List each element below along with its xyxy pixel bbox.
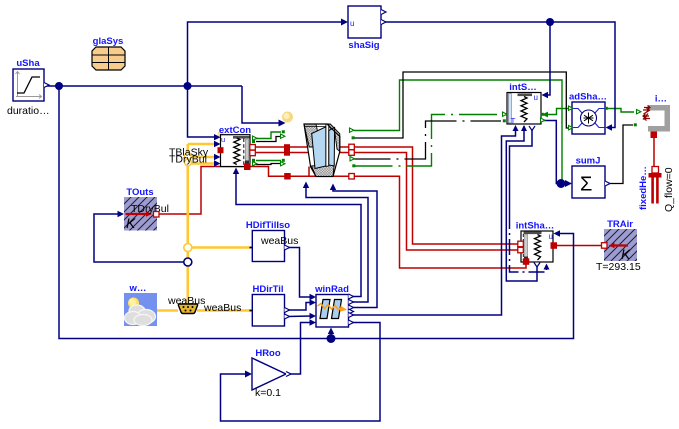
block adSha radiosity splitter	[569, 92, 607, 135]
svg-text:extCon: extCon	[219, 125, 251, 136]
svg-text:HDirTil: HDirTil	[253, 284, 284, 295]
svg-text:K: K	[621, 246, 631, 262]
wire window right lower to intSha port2	[354, 153, 518, 251]
connector weaBus icon	[167, 295, 241, 314]
dark red radiosity glyph at room block	[644, 106, 651, 121]
wire TOuts bus tap	[94, 214, 188, 262]
wires-green	[256, 80, 634, 182]
block sumJ radiosity sum	[572, 156, 605, 199]
wires-black	[256, 72, 633, 184]
block intSha interior shade convection 2	[516, 221, 555, 263]
wire HDirTil out2 to winRad	[287, 315, 312, 318]
wire up to shaSig input	[188, 22, 346, 86]
wire HRoo out up to winRad	[286, 323, 312, 375]
svg-text:u: u	[350, 19, 354, 28]
svg-text:intSha…: intSha…	[516, 221, 555, 232]
bus ticks at block ports	[250, 248, 256, 311]
svg-text:weaBus: weaBus	[260, 235, 298, 247]
wire winRad out2 to window bottom1	[306, 186, 368, 302]
svg-text:TDryBul: TDryBul	[169, 154, 207, 166]
svg-text:u: u	[534, 93, 538, 102]
block TOuts prescribed temperature	[124, 187, 169, 231]
wire winRad out to HRoo feedback loop	[221, 323, 381, 422]
block HDirTil	[252, 284, 284, 326]
wire sumJ out to room radiosity	[608, 125, 633, 184]
window icon 3D glazing	[304, 124, 340, 177]
wire intS port to intSha bottom a	[506, 126, 537, 281]
svg-text:uSha: uSha	[16, 58, 40, 69]
svg-text:HRoo: HRoo	[255, 348, 281, 359]
wire intS chevron to sumJ junction	[543, 121, 561, 184]
wires-red	[159, 137, 655, 268]
block HRoo gain	[252, 348, 286, 399]
svg-text:u: u	[221, 135, 225, 144]
block indoor radiosity gray bracket	[643, 94, 670, 139]
bus weaDat to connector	[157, 309, 178, 312]
wire intSha right to TRAir	[553, 245, 602, 247]
record glaSys	[92, 36, 125, 70]
wire HDifTilIso to winRad	[285, 248, 313, 298]
wires-navy	[45, 22, 615, 421]
bus tap circles	[184, 153, 192, 266]
wire branch to intS right arrow	[546, 109, 562, 115]
wire extCon to window bottom pair green	[256, 160, 281, 162]
wire uSha trunk down and across bottom to intSha.u	[59, 86, 574, 339]
wire uSha out to right	[45, 85, 242, 87]
block weaDat weather data	[124, 283, 157, 326]
svg-text:K: K	[126, 215, 136, 231]
wire window bottom port to intSha bottom	[355, 176, 527, 268]
block uSha ramp source	[7, 58, 50, 117]
wire extCon to window top pair green	[256, 132, 281, 139]
wire radiosity block to fixedHeatFlow	[653, 137, 655, 167]
svg-text:Q_flow=0: Q_flow=0	[663, 167, 675, 212]
svg-text:w…: w…	[129, 283, 147, 294]
svg-text:weaBus: weaBus	[167, 295, 205, 307]
bus vertical	[187, 144, 190, 303]
block winRad window radiation	[314, 284, 349, 327]
wire branch down to intS u	[545, 22, 550, 95]
wire winRad long out to intS bottom	[349, 130, 516, 315]
wire TOuts port to extCon bottom	[159, 167, 245, 215]
svg-text:weaBus: weaBus	[203, 302, 241, 314]
wire left red stubs into window icon	[285, 147, 314, 153]
svg-text:winRad: winRad	[314, 284, 349, 295]
bus branch TBlaSky to extCon	[188, 143, 216, 146]
wire window JOut to intS left dash-dot	[353, 121, 502, 159]
wire adSha out to room radiosity	[607, 109, 634, 113]
svg-text:T: T	[511, 117, 516, 126]
wire winRad out1 to extCon bottom	[236, 172, 361, 297]
wire branch up to winRad bottom	[330, 330, 332, 339]
wire window bottom left stub	[308, 167, 310, 177]
bus branch to extCon 2	[188, 156, 216, 159]
svg-text:k=0.1: k=0.1	[255, 387, 281, 399]
wire window JOut to adSha loop	[355, 72, 569, 138]
wire shaSig output across top	[381, 22, 615, 128]
green ports	[252, 106, 641, 167]
svg-text:TDryBul: TDryBul	[131, 203, 169, 215]
wire window right upper to intSha port1	[354, 147, 518, 244]
wire extCon through red	[222, 149, 250, 151]
bus branch to HDifTilIso	[188, 246, 250, 249]
wire winRad out3 to window bottom2	[333, 188, 377, 308]
wire extCon bottom port to window bottom port	[248, 167, 349, 177]
svg-text:i…: i…	[655, 94, 667, 105]
red port squares	[154, 144, 608, 265]
sun	[282, 112, 293, 123]
svg-text:TRAir: TRAir	[607, 219, 633, 230]
block TRAir prescribed temperature	[596, 219, 641, 273]
wire intS port to intSha bottom b	[510, 129, 533, 213]
wire branch to adSha left	[562, 108, 569, 110]
svg-text:glaSys: glaSys	[93, 36, 124, 47]
wire window to intS green dash-dot	[355, 115, 503, 167]
svg-text:TOuts: TOuts	[126, 187, 153, 198]
svg-text:duratio…: duratio…	[7, 105, 50, 117]
wires-bus-orange	[157, 144, 250, 311]
block shaSig	[348, 6, 381, 51]
svg-text:Σ: Σ	[580, 174, 592, 196]
wire down to extCon u input	[188, 86, 217, 137]
svg-text:T=293.15: T=293.15	[596, 261, 641, 273]
bus branch to extCon 3	[188, 162, 216, 165]
svg-text:shaSig: shaSig	[348, 40, 379, 51]
block intS interior shade convection	[507, 82, 541, 126]
svg-text:intS…: intS…	[509, 82, 536, 93]
wire HDirTil out1 to winRad	[285, 303, 313, 311]
svg-text:HDifTilIso: HDifTilIso	[246, 220, 290, 231]
wire to window uSha input	[242, 86, 281, 123]
svg-text:u: u	[549, 232, 553, 241]
navy input arrows	[118, 19, 613, 378]
wire extCon right to window left upper	[254, 146, 284, 148]
wire intS-intSha dash-dot segment	[510, 213, 547, 272]
svg-text:fixedHe…: fixedHe…	[638, 166, 649, 210]
block fixedHe fixed heat flow	[638, 166, 675, 212]
wire window JIn long loop to sumJ	[354, 80, 562, 182]
svg-text:adSha…: adSha…	[569, 92, 607, 103]
wire extCon right to window left lower	[254, 152, 284, 154]
block HDifTilIso	[246, 220, 298, 262]
block extCon exterior convection	[218, 125, 252, 167]
svg-text:sumJ: sumJ	[576, 156, 601, 167]
bus connector to HDirTil	[197, 309, 250, 312]
wire extCon black bottom	[256, 164, 282, 165]
wire extCon black top	[256, 137, 282, 142]
navy output chevrons	[44, 10, 610, 377]
